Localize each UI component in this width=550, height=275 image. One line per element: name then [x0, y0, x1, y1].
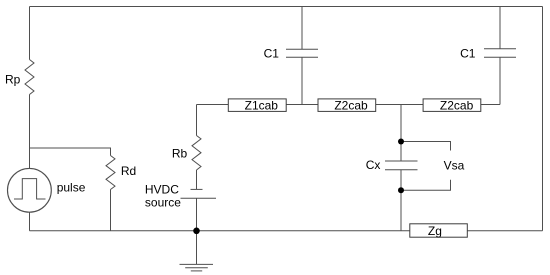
svg-text:Vsa: Vsa	[444, 159, 465, 173]
wire bottom bus left segment	[30, 230, 410, 232]
wire branch to Rd	[30, 148, 111, 156]
wire node A to Cx top plate	[400, 142, 402, 162]
wire pulse source to bottom bus	[29, 212, 31, 231]
resistor Rp	[25, 60, 34, 95]
box Z2cab first	[318, 99, 376, 112]
resistor Rd	[106, 156, 115, 190]
pulse source circle	[8, 168, 52, 212]
pulse waveform symbol	[14, 179, 46, 199]
svg-text:Z2cab: Z2cab	[440, 99, 474, 113]
capacitor C1 right lead to cable node	[499, 57, 501, 104]
battery HVDC source short plate	[191, 188, 203, 190]
probe Vsa top bracket	[401, 142, 451, 151]
battery HVDC source long plate	[181, 197, 217, 199]
probe Vsa bottom bracket	[401, 180, 451, 190]
wire Z2cab to Z2cab	[376, 104, 423, 106]
wire Rb to battery	[196, 170, 198, 189]
box Z1cab	[228, 99, 286, 112]
wire right vertical	[542, 7, 544, 231]
svg-text:Rd: Rd	[121, 164, 136, 178]
capacitor Cx plates	[385, 161, 418, 170]
wire top bus	[30, 6, 543, 8]
node A dot Cx top	[398, 139, 404, 145]
capacitor C1 left lead to cable node	[301, 57, 303, 104]
svg-text:Zg: Zg	[428, 224, 442, 238]
svg-text:C1: C1	[460, 46, 476, 60]
wire node B to bottom bus	[400, 190, 402, 231]
svg-text:Z1cab: Z1cab	[245, 99, 279, 113]
ground symbol	[180, 264, 214, 271]
wire battery to bottom bus	[196, 198, 198, 231]
wire node between Z2cab down to Cx	[400, 105, 402, 142]
svg-text:Z2cab: Z2cab	[334, 99, 368, 113]
resistor Rb	[192, 136, 201, 171]
svg-text:Rp: Rp	[5, 72, 21, 86]
svg-text:pulse: pulse	[57, 180, 86, 194]
svg-text:source: source	[145, 196, 181, 210]
wire down to Rb	[196, 105, 198, 136]
node B dot Cx bottom	[398, 187, 404, 193]
wire bottom bus right segment	[467, 230, 542, 232]
capacitor C1 left plates	[286, 49, 318, 57]
svg-text:HVDC: HVDC	[145, 182, 179, 196]
capacitor C1 right lead from top bus	[499, 7, 501, 49]
wire Rb top horizontal to Z1cab	[197, 104, 229, 106]
wire Rp to pulse source	[29, 95, 31, 169]
wire bottom bus to ground	[196, 231, 198, 265]
node junction dot HVDC to ground bus	[193, 228, 200, 235]
wire Rd to bottom bus	[110, 190, 112, 231]
svg-text:Rb: Rb	[172, 146, 188, 160]
box Zg	[410, 224, 468, 237]
box Z2cab second	[423, 99, 481, 112]
capacitor C1 left lead from top bus	[301, 7, 303, 50]
wire Cx bottom plate to node B	[400, 170, 402, 190]
wire Z2cab right to C1 lead	[481, 104, 500, 106]
wire Z1cab to Z2cab	[286, 104, 318, 106]
capacitor C1 right plates	[484, 49, 516, 57]
svg-text:Cx: Cx	[366, 158, 381, 172]
svg-text:C1: C1	[264, 46, 280, 60]
wire left vertical (top to Rp)	[29, 7, 31, 60]
